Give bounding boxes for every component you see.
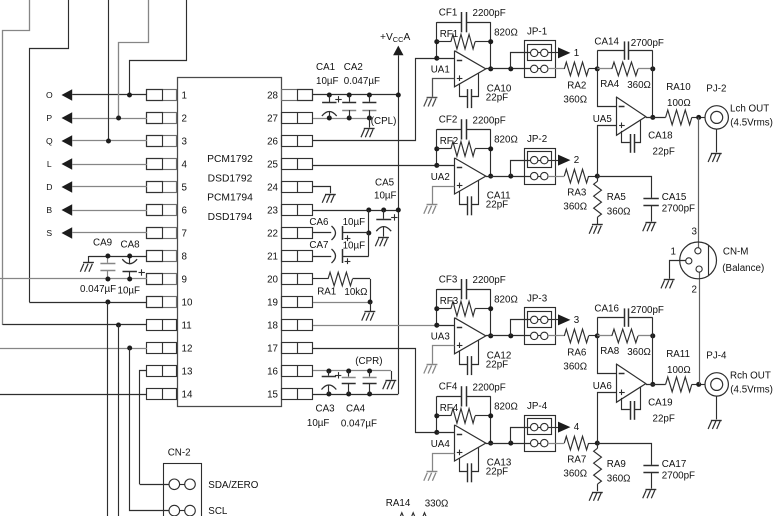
svg-text:UA5: UA5 [593, 114, 613, 125]
svg-text:10µF: 10µF [118, 286, 141, 297]
svg-text:22pF: 22pF [653, 413, 675, 424]
svg-text:SCL: SCL [208, 506, 228, 516]
svg-text:330Ω: 330Ω [425, 499, 449, 510]
svg-text:0.047µF: 0.047µF [341, 419, 377, 430]
svg-text:P: P [46, 113, 52, 123]
svg-text:CA3: CA3 [316, 404, 336, 415]
svg-text:RA4: RA4 [600, 79, 620, 90]
svg-text:16: 16 [267, 367, 278, 378]
svg-text:JP-2: JP-2 [527, 134, 547, 145]
svg-text:2200pF: 2200pF [473, 382, 506, 393]
svg-text:27: 27 [267, 114, 278, 125]
svg-text:8: 8 [182, 252, 188, 263]
svg-text:360Ω: 360Ω [563, 94, 587, 105]
svg-text:DSD1792: DSD1792 [208, 173, 253, 184]
svg-text:Q: Q [46, 136, 53, 146]
svg-text:22pF: 22pF [486, 200, 508, 211]
svg-text:19: 19 [267, 298, 278, 309]
svg-text:2700pF: 2700pF [662, 471, 695, 482]
svg-text:2700pF: 2700pF [631, 305, 664, 316]
svg-text:22: 22 [267, 229, 278, 240]
svg-text:13: 13 [182, 367, 193, 378]
svg-text:RA2: RA2 [567, 80, 586, 91]
svg-text:5: 5 [182, 183, 188, 194]
svg-text:22pF: 22pF [486, 359, 508, 370]
svg-text:CA6: CA6 [309, 217, 329, 228]
svg-text:10: 10 [182, 298, 193, 309]
svg-text:820Ω: 820Ω [494, 294, 518, 305]
svg-text:100Ω: 100Ω [667, 365, 691, 376]
svg-text:10µF: 10µF [343, 240, 366, 251]
svg-text:B: B [46, 205, 52, 215]
svg-text:2: 2 [574, 155, 579, 166]
svg-text:3: 3 [574, 315, 580, 326]
svg-text:O: O [46, 90, 53, 100]
svg-text:21: 21 [267, 252, 278, 263]
svg-text:CA16: CA16 [594, 304, 619, 315]
svg-text:10µF: 10µF [307, 418, 330, 429]
svg-text:RA3: RA3 [567, 188, 587, 199]
svg-text:RA10: RA10 [666, 82, 691, 93]
svg-text:Lch OUT: Lch OUT [730, 104, 769, 115]
svg-text:L: L [47, 159, 52, 169]
svg-text:RF1: RF1 [440, 29, 459, 40]
svg-text:PJ-4: PJ-4 [706, 351, 727, 362]
svg-text:2: 2 [182, 114, 187, 125]
svg-text:RA11: RA11 [666, 349, 690, 360]
svg-text:4: 4 [182, 160, 188, 171]
svg-text:6: 6 [182, 206, 188, 217]
svg-text:CA2: CA2 [344, 62, 363, 73]
svg-text:UA2: UA2 [431, 172, 450, 183]
svg-text:CF4: CF4 [439, 382, 458, 393]
svg-text:CF1: CF1 [439, 7, 458, 18]
svg-text:2: 2 [692, 284, 697, 295]
svg-text:14: 14 [182, 390, 193, 401]
svg-text:CN-M: CN-M [723, 246, 749, 257]
svg-text:360Ω: 360Ω [563, 469, 587, 480]
svg-text:RF4: RF4 [440, 403, 459, 414]
svg-text:CA5: CA5 [375, 178, 395, 189]
svg-text:PJ-2: PJ-2 [706, 84, 726, 95]
svg-text:7: 7 [182, 229, 187, 240]
svg-text:CN-2: CN-2 [168, 448, 191, 459]
svg-text:CF3: CF3 [439, 274, 458, 285]
svg-text:10µF: 10µF [316, 76, 339, 87]
svg-text:20: 20 [267, 275, 278, 286]
svg-text:PCM1792: PCM1792 [207, 154, 253, 165]
svg-text:CA1: CA1 [316, 62, 335, 73]
svg-text:9: 9 [182, 275, 187, 286]
svg-text:2700pF: 2700pF [631, 38, 664, 49]
svg-text:RA5: RA5 [607, 192, 627, 203]
svg-text:CA4: CA4 [346, 404, 366, 415]
svg-text:UA6: UA6 [593, 381, 613, 392]
svg-text:820Ω: 820Ω [494, 135, 518, 146]
svg-text:820Ω: 820Ω [494, 402, 518, 413]
svg-text:CA19: CA19 [648, 397, 673, 408]
svg-text:100Ω: 100Ω [667, 98, 691, 109]
svg-text:CA15: CA15 [662, 192, 687, 203]
svg-text:24: 24 [267, 183, 278, 194]
svg-text:2700pF: 2700pF [662, 204, 695, 215]
svg-text:RF2: RF2 [440, 136, 459, 147]
svg-text:RF3: RF3 [440, 296, 459, 307]
svg-text:UA3: UA3 [431, 332, 451, 343]
svg-text:17: 17 [267, 344, 278, 355]
svg-text:28: 28 [267, 91, 278, 102]
svg-text:CA14: CA14 [594, 37, 619, 48]
svg-text:(Balance): (Balance) [722, 263, 764, 274]
svg-text:S: S [46, 228, 52, 238]
svg-text:10µF: 10µF [374, 191, 397, 202]
svg-text:RA8: RA8 [600, 346, 620, 357]
svg-text:JP-1: JP-1 [527, 27, 547, 38]
svg-text:CF2: CF2 [439, 115, 458, 126]
svg-text:10µF: 10µF [343, 217, 366, 228]
svg-text:12: 12 [182, 344, 193, 355]
svg-text:DSD1794: DSD1794 [208, 212, 253, 223]
svg-text:PCM1794: PCM1794 [207, 193, 253, 204]
svg-text:360Ω: 360Ω [563, 202, 587, 213]
svg-text:25: 25 [267, 160, 278, 171]
svg-text:2200pF: 2200pF [473, 275, 506, 286]
svg-text:JP-4: JP-4 [527, 401, 548, 412]
svg-text:CA18: CA18 [648, 130, 673, 141]
svg-text:3: 3 [692, 226, 698, 237]
svg-text:UA4: UA4 [431, 439, 451, 450]
svg-text:10kΩ: 10kΩ [344, 287, 367, 298]
svg-text:(4.5Vrms): (4.5Vrms) [730, 117, 773, 128]
svg-text:360Ω: 360Ω [563, 361, 587, 372]
svg-text:SDA/ZERO: SDA/ZERO [208, 480, 258, 491]
svg-text:4: 4 [574, 422, 580, 433]
svg-text:Rch OUT: Rch OUT [730, 371, 771, 382]
svg-text:15: 15 [267, 390, 278, 401]
svg-text:2200pF: 2200pF [473, 8, 506, 19]
svg-text:0.047µF: 0.047µF [344, 76, 380, 87]
svg-text:1: 1 [182, 91, 187, 102]
svg-text:RA1: RA1 [317, 287, 336, 298]
svg-text:CA7: CA7 [309, 240, 328, 251]
svg-text:23: 23 [267, 206, 278, 217]
svg-text:CA17: CA17 [662, 459, 687, 470]
svg-text:360Ω: 360Ω [627, 347, 651, 358]
svg-text:1: 1 [574, 48, 579, 59]
svg-text:RA14: RA14 [386, 498, 411, 509]
svg-text:RA7: RA7 [567, 455, 586, 466]
svg-text:22pF: 22pF [486, 467, 508, 478]
svg-text:(CPL): (CPL) [371, 116, 397, 127]
svg-text:360Ω: 360Ω [607, 206, 631, 217]
svg-text:D: D [46, 182, 52, 192]
svg-text:18: 18 [267, 321, 278, 332]
svg-text:22pF: 22pF [653, 146, 675, 157]
svg-text:(CPR): (CPR) [355, 356, 382, 367]
svg-text:26: 26 [267, 137, 278, 148]
svg-text:3: 3 [182, 137, 188, 148]
svg-text:360Ω: 360Ω [627, 80, 651, 91]
svg-text:RA9: RA9 [607, 459, 626, 470]
svg-text:JP-3: JP-3 [527, 294, 548, 305]
svg-text:11: 11 [182, 321, 192, 332]
svg-text:2200pF: 2200pF [473, 115, 506, 126]
svg-text:(4.5Vrms): (4.5Vrms) [730, 384, 773, 395]
svg-text:1: 1 [671, 246, 676, 257]
svg-text:UA1: UA1 [431, 65, 450, 76]
svg-text:22pF: 22pF [486, 92, 508, 103]
svg-text:CA9: CA9 [93, 238, 112, 249]
svg-text:0.047µF: 0.047µF [80, 284, 116, 295]
svg-text:CA8: CA8 [121, 240, 141, 251]
svg-text:RA6: RA6 [567, 347, 587, 358]
svg-text:820Ω: 820Ω [494, 27, 518, 38]
svg-text:360Ω: 360Ω [607, 473, 631, 484]
